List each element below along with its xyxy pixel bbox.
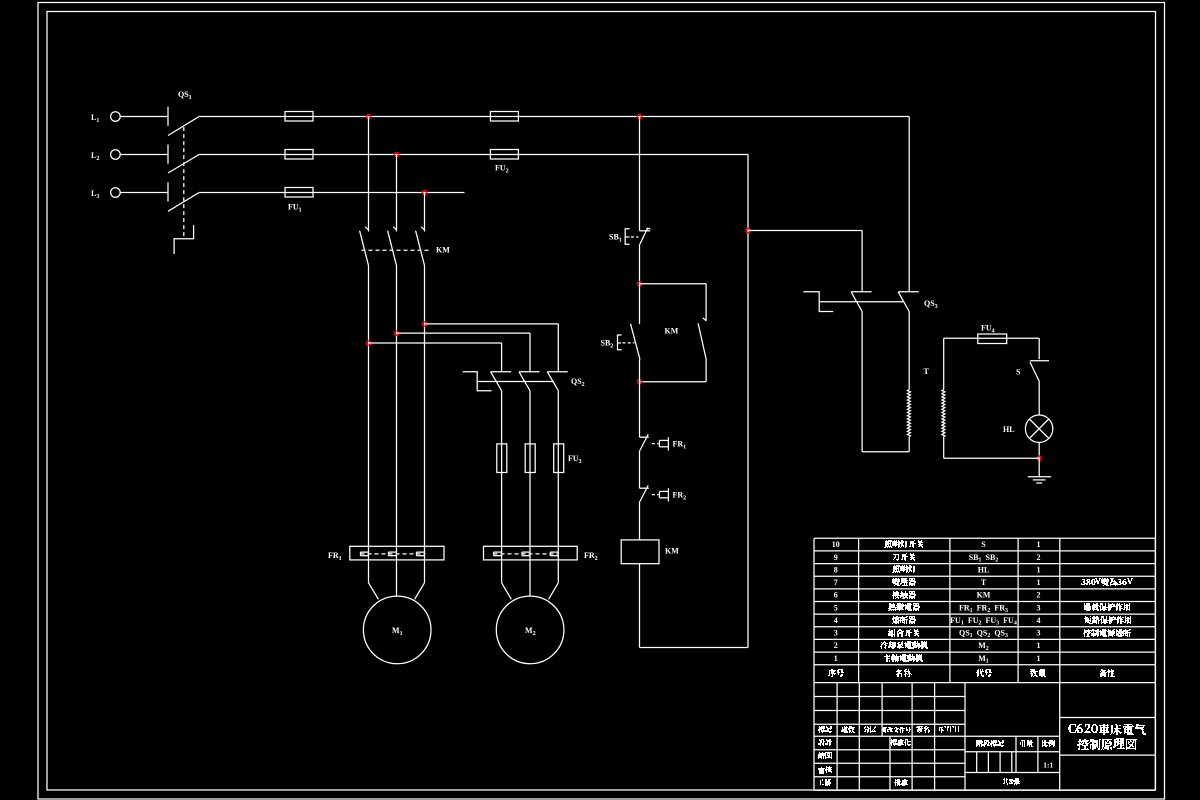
switch QS3 pole 1: [851, 291, 872, 293]
fuse FU1 pole 2: [285, 150, 313, 160]
svg-text:3: 3: [834, 629, 838, 638]
wire QS3-2 to primary: [908, 312, 910, 390]
fuse FU2 pole 1: [490, 112, 518, 122]
terminal L2: [111, 150, 121, 160]
switch QS2 handle: [463, 372, 492, 391]
thermal relay FR2 heater box: [484, 546, 578, 560]
wire node B down: [639, 360, 641, 438]
contactor KM auxiliary contact: [703, 318, 706, 321]
wire S to lamp: [1038, 381, 1040, 415]
contactor KM main contact 3: [421, 227, 424, 230]
switch QS2 linkage: [477, 381, 554, 383]
node lamp return: [1037, 456, 1041, 460]
drawing title: [1068, 724, 1146, 735]
wire coil to bottom: [639, 564, 641, 648]
wire L3 bus: [199, 192, 464, 194]
svg-text:KM: KM: [665, 547, 679, 556]
node control A: [637, 282, 641, 286]
node tap V: [394, 331, 398, 335]
wire FU4 to switch S: [1038, 338, 1040, 359]
wire control rail from L1 node: [639, 117, 641, 231]
terminal L3: [111, 188, 121, 198]
switch QS2 pole 1: [491, 371, 512, 373]
node tap U: [422, 322, 426, 326]
transformer T secondary winding: [943, 338, 945, 389]
svg-text:KM: KM: [665, 327, 679, 336]
wire FR2 to coil: [639, 502, 641, 540]
wire L1 drop to KM: [368, 117, 370, 232]
svg-text:HL: HL: [1003, 425, 1015, 434]
terminal L1: [111, 112, 121, 122]
transformer T primary winding: [907, 390, 910, 437]
title block grid: [814, 683, 1155, 791]
node L1/KM tap: [366, 114, 370, 118]
wire QS2-2 down: [529, 391, 531, 597]
wire QS2-3 down: [557, 391, 559, 583]
parts table header: [828, 669, 844, 677]
pushbutton SB2 (start, NO): [639, 284, 641, 324]
thermal contact FR2 (NC): [640, 487, 649, 489]
svg-text:2: 2: [834, 641, 838, 650]
switch QS3 handle: [803, 292, 833, 312]
node control B: [637, 380, 641, 384]
svg-text:4: 4: [834, 616, 838, 625]
title block labels: [818, 726, 832, 733]
svg-text:1: 1: [1036, 641, 1040, 650]
wire L1 to QS3: [908, 117, 910, 292]
switch QS3 pole 2: [898, 291, 919, 293]
wire control rail right: [747, 155, 749, 648]
svg-text:1:1: 1:1: [1043, 761, 1053, 770]
wire L1 terminal to QS1: [120, 116, 168, 118]
switch QS3 linkage: [819, 301, 904, 303]
wire L3 drop to KM: [424, 193, 426, 232]
node L2/KM tap: [394, 152, 398, 156]
svg-text:S: S: [1016, 368, 1021, 377]
parts table grid: [814, 538, 1155, 682]
wire lamp to node: [1038, 442, 1040, 458]
svg-text:2: 2: [1036, 553, 1040, 562]
svg-text:3: 3: [1036, 629, 1040, 638]
wire secondary bottom: [944, 457, 1039, 459]
switch S: [1030, 360, 1049, 362]
switch QS2 pole 2: [519, 371, 540, 373]
svg-text:9: 9: [834, 553, 838, 562]
wire self-hold branch bottom: [705, 359, 707, 382]
switch QS1 linkage (dashed): [183, 127, 185, 239]
contactor KM linkage (dashed): [362, 249, 431, 251]
motor M1: [363, 596, 431, 664]
node L1/control tap: [637, 114, 641, 118]
svg-text:T: T: [924, 367, 930, 376]
wire L1 bus: [199, 116, 909, 118]
svg-text:T: T: [981, 578, 987, 587]
switch QS1 pole 2: [167, 145, 169, 164]
fuse FU1 pole 1: [285, 112, 313, 122]
wire L3 terminal to QS1: [120, 192, 168, 194]
wire L2 bus: [199, 154, 748, 156]
wire L2 terminal to QS1: [120, 154, 168, 156]
wire KM1 to M1: [368, 266, 370, 583]
lamp HL: [1025, 415, 1052, 442]
node control C: [746, 228, 750, 232]
svg-text:KM: KM: [977, 591, 991, 600]
wire secondary top: [944, 337, 1039, 339]
svg-text:6: 6: [834, 591, 838, 600]
contactor KM coil: [621, 540, 659, 564]
thermal contact FR1 (NC): [640, 436, 649, 438]
svg-text:1: 1: [834, 654, 838, 663]
wire tap V to QS2: [397, 332, 531, 334]
svg-text:S: S: [981, 540, 986, 549]
svg-text:HL: HL: [978, 565, 990, 574]
fuse FU3 pole 2: [525, 444, 535, 473]
svg-text:1: 1: [1036, 565, 1040, 574]
wire QS3-1 down: [861, 312, 863, 452]
svg-text:KM: KM: [436, 246, 450, 255]
wire L2 drop to KM: [396, 155, 398, 232]
svg-text:5: 5: [834, 603, 838, 612]
svg-text:7: 7: [834, 578, 838, 587]
wire KM3 to M1: [424, 266, 426, 583]
node L3/KM tap: [422, 190, 426, 194]
fuse FU2 pole 2: [490, 150, 518, 160]
svg-text:8: 8: [834, 565, 838, 574]
contactor KM main contact 1: [365, 227, 368, 230]
svg-text:1: 1: [1036, 578, 1040, 587]
switch QS1 handle: [174, 225, 194, 254]
wire primary bottom: [862, 451, 909, 453]
fuse FU1 pole 3: [285, 188, 313, 198]
node tap W: [366, 341, 370, 345]
contactor KM main contact 2: [393, 227, 396, 230]
wire KM2 to M1: [396, 266, 398, 597]
switch QS1 pole 1: [167, 107, 169, 126]
fuse FU3 pole 1: [497, 444, 507, 473]
wire self-hold branch top: [640, 283, 707, 285]
svg-text:1: 1: [1036, 654, 1040, 663]
pushbutton SB1 (stop, NC): [640, 230, 651, 232]
ground: [1038, 458, 1040, 477]
svg-text:10: 10: [832, 540, 840, 549]
wire tap U to QS2: [425, 323, 559, 325]
svg-text:1: 1: [1036, 540, 1040, 549]
thermal relay FR1 heater box: [350, 546, 444, 560]
wire tap W to QS2: [369, 342, 502, 344]
switch QS2 pole 3: [547, 371, 568, 373]
wire QS2-1 down: [501, 391, 503, 583]
svg-text:3: 3: [1036, 603, 1040, 612]
wire node C to QS3: [748, 230, 862, 232]
fuse FU3 pole 3: [554, 444, 564, 473]
switch QS1 pole 3: [167, 182, 169, 201]
svg-text:4: 4: [1036, 616, 1040, 625]
motor M2: [496, 596, 564, 664]
wire SB1 to node: [639, 244, 641, 284]
svg-text:2: 2: [1036, 591, 1040, 600]
wire FR1 to FR2: [639, 451, 641, 489]
fuse FU4: [978, 334, 1007, 344]
